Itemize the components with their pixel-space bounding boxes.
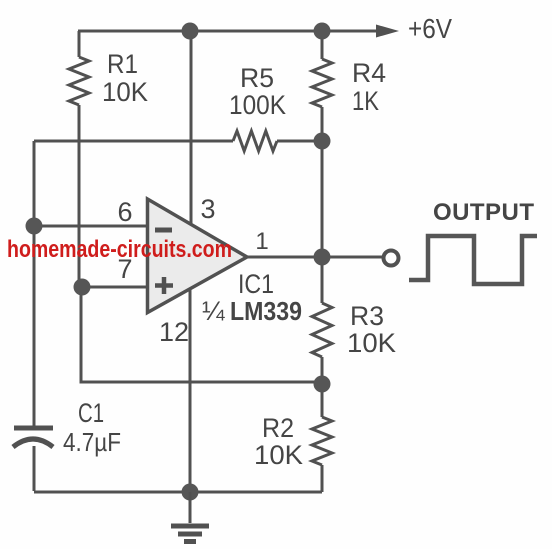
resistor R2 [312,417,332,465]
svg-text:¼: ¼ [202,296,225,326]
wire top +6V rail [78,30,378,33]
resistor R4 [312,59,332,107]
wire R1 column [78,31,81,57]
wire pin 6 input [34,225,150,228]
wire output column R4 node to output node [321,141,324,303]
svg-text:R4: R4 [352,58,386,88]
node: top rail / pin3 column junction [182,23,199,40]
node: R3/R2 junction [314,376,331,393]
wire pin 7 input [82,286,150,289]
node: top rail / R4 junction [314,23,331,40]
wire left column above C1 [33,141,36,427]
svg-text:1K: 1K [352,86,379,116]
svg-text:IC1: IC1 [238,269,274,299]
svg-text:6: 6 [117,197,132,227]
svg-text:12: 12 [159,317,189,347]
svg-text:OUTPUT: OUTPUT [433,199,534,226]
wire left column below C1 [33,446,36,491]
svg-text:R2: R2 [262,413,294,443]
wire bottom ground rail [34,491,322,494]
svg-text:R1: R1 [107,49,138,79]
op-amp IC1 (LM339 comparator) [148,199,248,313]
svg-text:homemade-circuits.com: homemade-circuits.com [7,236,232,263]
wire second rail (minus input node) left part [34,140,233,143]
capacitor C1 [13,428,53,447]
resistor R1 [69,57,89,105]
resistor R5 [233,131,277,151]
svg-text:100K: 100K [229,90,286,120]
ground [171,492,209,542]
plus input symbol [155,277,173,294]
svg-text:10K: 10K [102,77,148,107]
node: pin 6 / left column junction [26,218,43,235]
wire pin 3 supply column [190,31,193,224]
node: output junction [314,249,331,266]
node: R4/R5 junction [314,133,331,150]
svg-text:3: 3 [200,194,215,224]
output terminal circle [384,251,399,266]
svg-text:+6V: +6V [408,13,452,44]
wire R4 bottom stub [321,107,324,141]
svg-text:4.7µF: 4.7µF [63,427,121,457]
node: pin 7 / R1 column junction [74,279,91,296]
wire R4 top stub [321,31,324,59]
wire pin 12 ground column [189,290,192,492]
wire second rail right part to R4 node [277,140,322,143]
svg-text:R5: R5 [240,63,274,93]
wire + input feedback (vertical then horizontal to R3/R2 node) [81,287,322,382]
wire R3 bottom stub [321,357,324,417]
resistor R3 [312,303,332,357]
svg-text:1: 1 [255,228,268,255]
wire output pin 1 [247,256,384,259]
svg-text:10K: 10K [254,440,303,470]
svg-text:10K: 10K [347,328,396,358]
node: bottom rail / ground junction [182,484,199,501]
svg-text:R3: R3 [350,301,384,331]
wire R2 bottom stub [321,465,324,492]
svg-text:C1: C1 [78,398,104,428]
minus input symbol [155,228,172,233]
square wave symbol [409,236,537,284]
svg-text:LM339: LM339 [230,296,302,326]
+6V supply arrow [376,25,399,38]
